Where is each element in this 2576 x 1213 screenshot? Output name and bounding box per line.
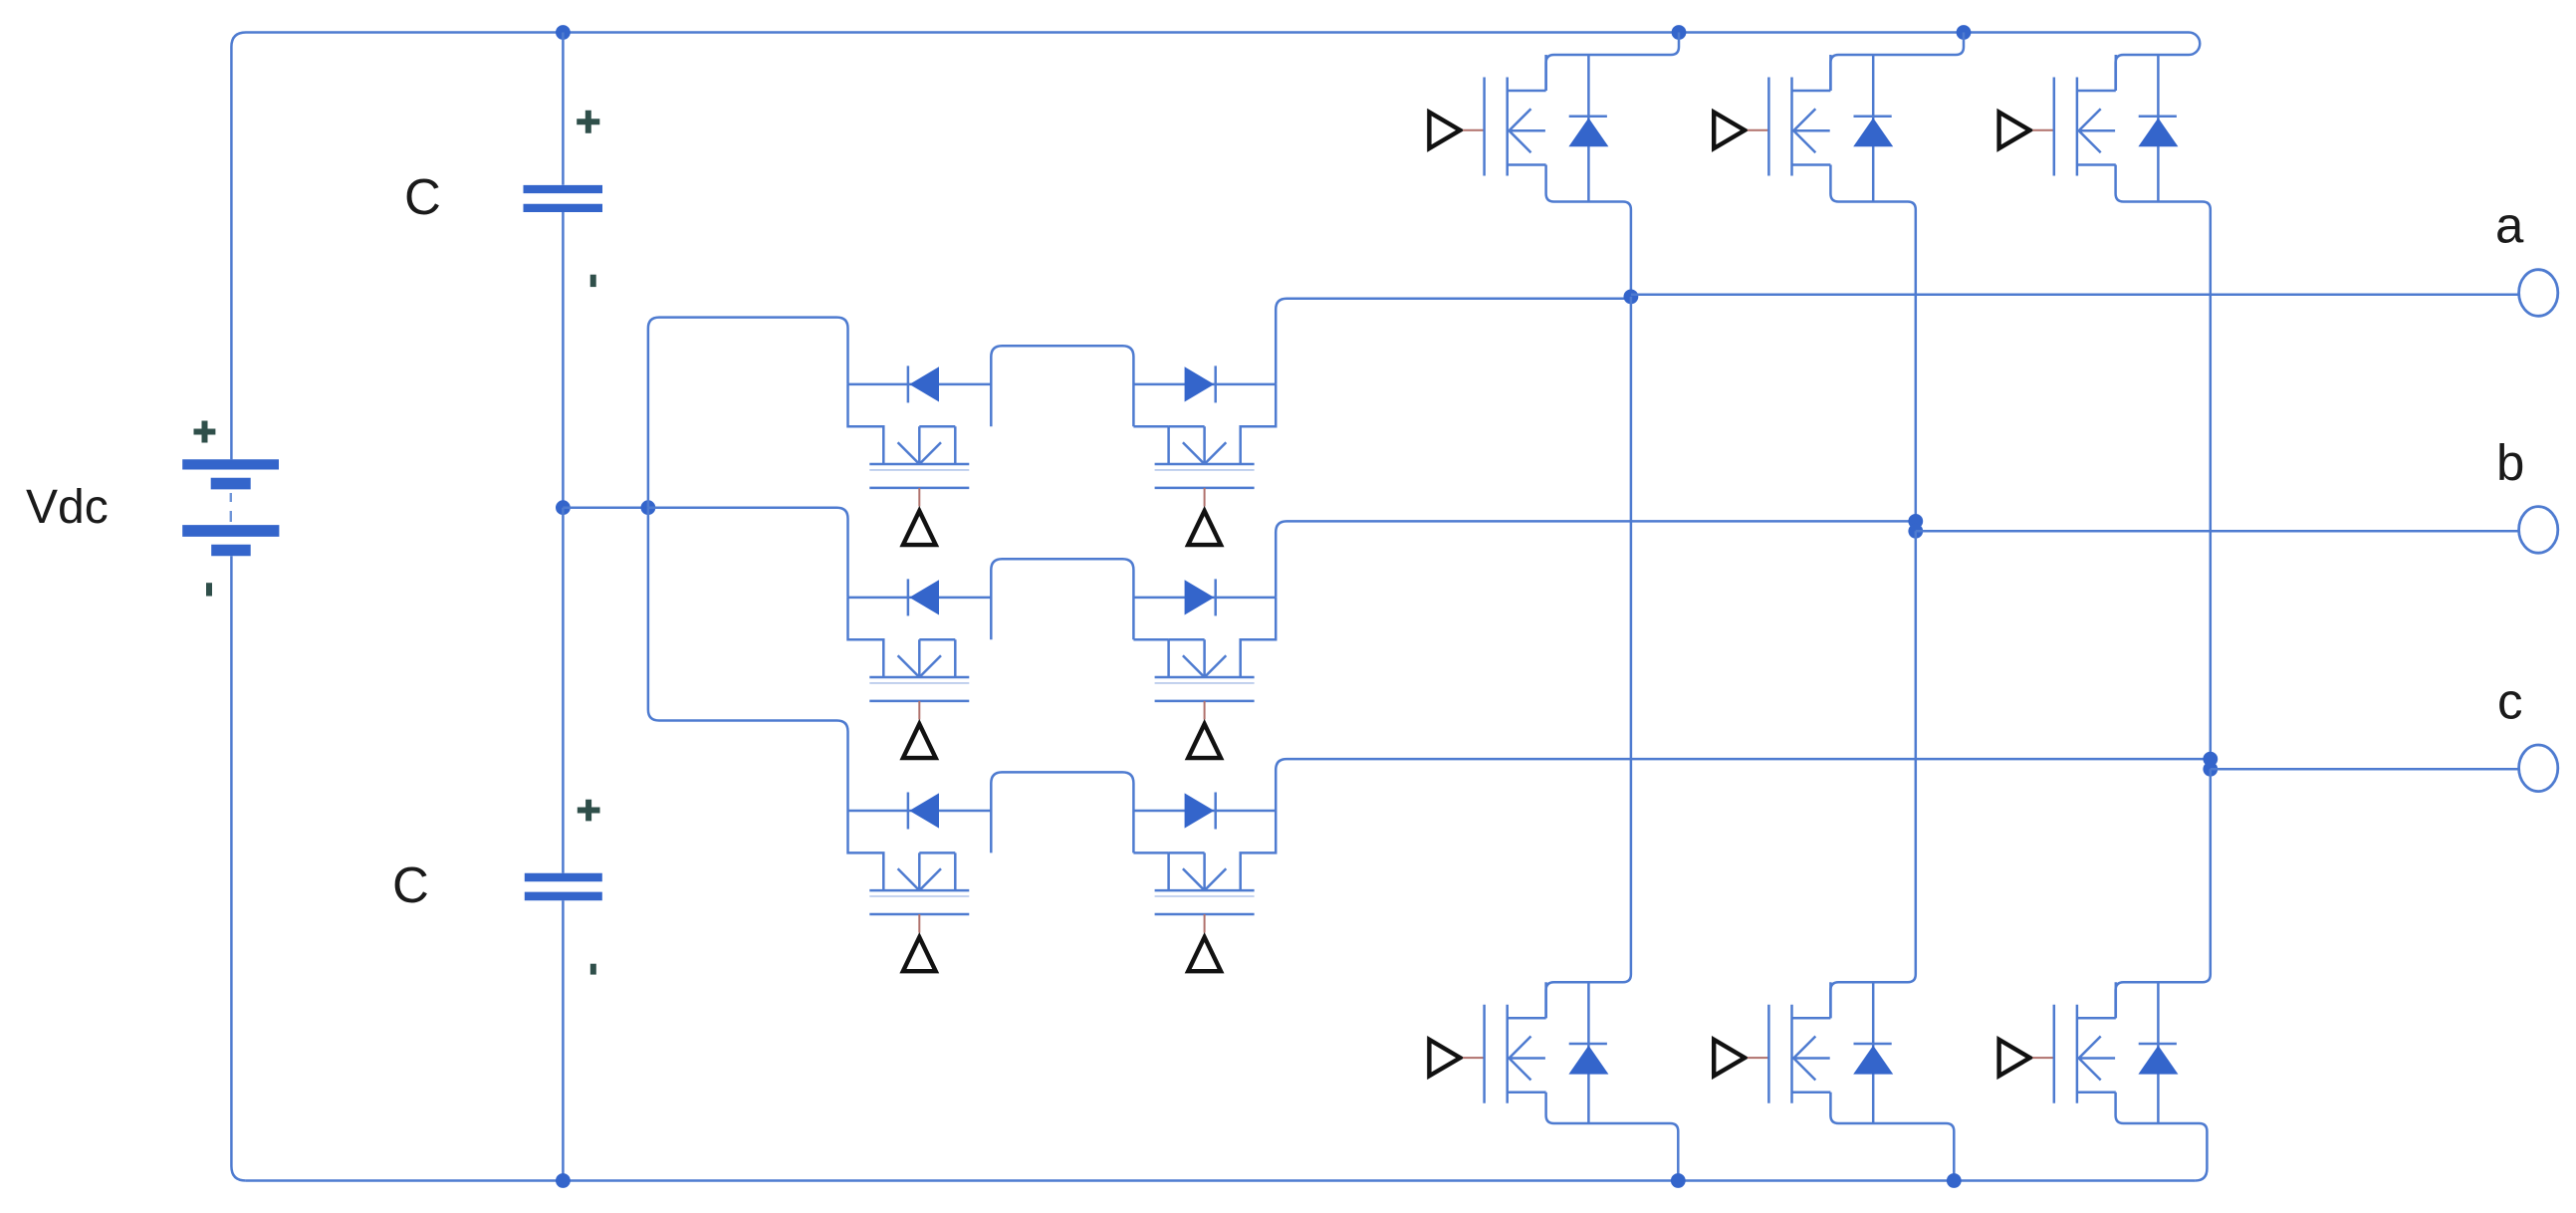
node midpoint rail branch — [641, 500, 656, 515]
transistor Q4 (bottom, phase a) — [1429, 982, 1545, 1103]
wire midpoint rail — [563, 506, 648, 509]
wire phase a to terminal — [1631, 294, 2519, 297]
C2 plus label — [578, 800, 600, 822]
C2 minus label — [590, 964, 596, 975]
capacitor C2 plate top — [525, 873, 602, 882]
diode D1 cathode bar — [1569, 115, 1607, 118]
transistor Q3 (top, phase c) — [1999, 55, 2116, 176]
terminal b circle — [2519, 507, 2558, 554]
diode D4 (points up) — [1568, 1046, 1608, 1075]
node a junction — [1624, 290, 1639, 305]
wire row1 to phase a — [1276, 299, 1632, 384]
svg-text:C: C — [392, 856, 429, 913]
svg-text:b: b — [2496, 434, 2524, 491]
node b junction upper — [1908, 514, 1923, 529]
battery Vdc plate long bottom — [182, 525, 279, 537]
diode D6 cathode bar — [2139, 1043, 2177, 1046]
bidirectional switch row 1 (S1,S2 phase a) — [848, 346, 1277, 545]
transistor Q6 (bottom, phase c) — [1999, 982, 2116, 1103]
wire Q2 drain feed — [1830, 33, 1964, 92]
wire node a down to Q4 drain — [1546, 297, 1631, 1018]
node c junction lower — [2203, 762, 2218, 777]
node top bus Q1 — [1672, 25, 1687, 40]
wire C2 bottom — [562, 900, 565, 1180]
transistor Q2 (top, phase b) — [1714, 55, 1830, 176]
node b junction lower — [1908, 524, 1923, 539]
terminal c circle — [2519, 745, 2558, 792]
wire Q1 drain feed — [1546, 33, 1679, 92]
bidirectional switch row 2 (S3,S4 phase b) — [848, 559, 1277, 758]
diode D5 (points up) — [1853, 1046, 1893, 1075]
node top bus Q2 — [1957, 25, 1972, 40]
wire phase b to terminal — [1916, 530, 2519, 533]
transistor Q5 (bottom, phase b) — [1714, 982, 1830, 1103]
C1 minus label — [590, 275, 596, 287]
wire C1 bottom to midpoint — [562, 212, 565, 508]
battery plus label — [194, 421, 216, 443]
wire Q4 source to bottom bus — [1546, 1092, 1679, 1181]
node midpoint at C1/C2 — [556, 500, 571, 515]
node top-bus / C1 — [556, 25, 571, 40]
diode D6 (points up) — [2138, 1046, 2178, 1075]
battery minus label — [206, 583, 212, 596]
terminal a circle — [2519, 270, 2558, 317]
left DC bus lower wire — [231, 556, 246, 1180]
wire node b down to Q5 drain — [1830, 531, 1915, 1018]
wire Q6 source to bottom bus end — [2116, 1092, 2208, 1181]
diode D6 wire — [2157, 982, 2160, 1123]
wire Q1 source to node a — [1546, 165, 1631, 297]
wire midpoint to row2 — [648, 508, 848, 598]
wire phase c to terminal — [2211, 768, 2519, 771]
diode D3 wire — [2157, 55, 2160, 202]
diode D3 (points up) — [2138, 118, 2178, 146]
diode D5 cathode bar — [1854, 1043, 1892, 1046]
svg-text:a: a — [2495, 197, 2524, 254]
wire Q5 source to bottom bus — [1830, 1092, 1954, 1181]
diode D1 wire — [1587, 55, 1590, 202]
battery Vdc plate short top — [211, 478, 251, 490]
capacitor C1 plate top — [524, 185, 603, 193]
diode D4 cathode bar — [1569, 1043, 1607, 1046]
wire row3 to phase c — [1276, 759, 2211, 811]
svg-text:Vdc: Vdc — [26, 481, 109, 534]
wire row2 to phase b — [1276, 521, 1916, 598]
bidirectional switch row 3 (S5,S6 phase c) — [848, 772, 1277, 971]
diode D2 wire — [1872, 55, 1875, 202]
transistor Q1 (top, phase a) — [1429, 55, 1545, 176]
node bottom-bus / C2 — [556, 1173, 571, 1188]
capacitor C1 plate bottom — [524, 204, 603, 212]
node bottom bus Q5 — [1947, 1173, 1962, 1188]
left DC bus upper wire — [230, 47, 233, 459]
C1 plus label — [577, 111, 599, 133]
battery Vdc plate long top — [182, 459, 279, 469]
wire Q3 source to node c — [2116, 165, 2211, 760]
wire midpoint to row3 — [648, 508, 848, 811]
battery dashed link — [230, 493, 232, 522]
capacitor C2 plate bottom — [525, 892, 602, 901]
wire node c down to Q6 drain — [2116, 769, 2211, 1018]
diode D3 cathode bar — [2139, 115, 2177, 118]
diode D2 (points up) — [1853, 118, 1893, 146]
wire Q2 source to node b — [1830, 165, 1915, 522]
diode D4 wire — [1587, 982, 1590, 1123]
node bottom bus Q4 — [1671, 1173, 1686, 1188]
wire C1 top — [562, 33, 565, 185]
svg-text:c: c — [2497, 673, 2523, 730]
diode D2 cathode bar — [1854, 115, 1892, 118]
node c junction upper — [2203, 752, 2218, 767]
diode D5 wire — [1872, 982, 1875, 1123]
battery Vdc plate short bottom — [211, 545, 251, 556]
top DC bus — [231, 33, 2189, 48]
svg-text:C: C — [404, 168, 441, 225]
wire top bus U-turn to Q3 drain — [2116, 33, 2201, 92]
diode D1 (points up) — [1568, 118, 1608, 146]
wire midpoint to row1 — [648, 318, 848, 508]
wire C2 top — [562, 508, 565, 873]
bottom DC bus — [246, 1179, 2195, 1182]
